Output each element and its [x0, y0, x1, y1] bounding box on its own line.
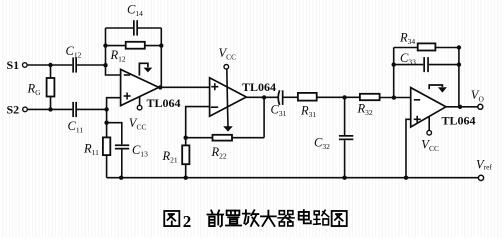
- wire C12 to node A: [77, 64, 106, 66]
- resistor R12: [106, 42, 162, 49]
- wire R32 to U3 inverting input: [380, 97, 411, 99]
- svg-text:RG: RG: [27, 82, 42, 98]
- wire C11 to node B: [77, 108, 107, 110]
- resistor R34: [394, 43, 459, 50]
- op-amp U3 Vcc pin: [427, 116, 432, 135]
- svg-text:S1: S1: [7, 58, 20, 72]
- wire feedback loop left vertical: [105, 28, 107, 65]
- capacitor C14: [106, 20, 162, 35]
- wire R22 left: [186, 137, 213, 139]
- wire U2 output: [246, 96, 278, 98]
- node S1 terminal: [23, 63, 28, 68]
- capacitor C11: [72, 102, 77, 117]
- resistor RG: [47, 65, 55, 109]
- node S2 terminal: [23, 107, 28, 112]
- wire U2 feedback vertical: [263, 97, 265, 137]
- svg-text:TL064: TL064: [242, 80, 276, 94]
- node C33 left junction: [392, 62, 396, 66]
- capacitor C33: [394, 57, 459, 72]
- node junction S1/RG: [48, 63, 52, 67]
- wire U3 output: [446, 106, 478, 108]
- wire loop3 left vertical: [393, 48, 395, 98]
- svg-text:C31: C31: [271, 103, 287, 119]
- svg-text:R34: R34: [399, 31, 415, 47]
- node C33 right junction: [457, 62, 461, 66]
- wire loop3 right vertical: [458, 48, 460, 107]
- wire C31 to R31: [284, 96, 298, 98]
- resistor R22: [213, 135, 233, 141]
- wire R31 to R32: [317, 96, 360, 98]
- op-amp U1: [121, 69, 159, 105]
- node B: [104, 107, 108, 111]
- node R11/C13 split: [104, 121, 108, 125]
- svg-text:2: 2: [183, 212, 192, 231]
- capacitor C31: [278, 90, 283, 105]
- node Vo terminal: [478, 104, 483, 109]
- wire U1 output to U2: [159, 86, 210, 88]
- svg-text:C33: C33: [400, 51, 416, 67]
- wire node B to non-inverting input U1: [107, 98, 121, 110]
- node R21 rail junction: [184, 176, 188, 180]
- capacitor C13: [107, 123, 130, 178]
- resistor R31: [298, 93, 317, 101]
- node C32 junction: [342, 95, 346, 99]
- wire U3 non-inverting input to rail: [406, 119, 411, 177]
- capacitor C12: [72, 57, 77, 72]
- node U3 output junction: [458, 105, 462, 109]
- svg-text:R22: R22: [211, 145, 227, 161]
- svg-text:S2: S2: [7, 103, 20, 117]
- node U2 output junction: [262, 95, 266, 99]
- wire S1 to C12: [27, 64, 72, 66]
- svg-text:C13: C13: [132, 143, 148, 159]
- svg-text:VCC: VCC: [219, 46, 237, 62]
- svg-text:R31: R31: [300, 104, 316, 120]
- node junction S2/RG: [48, 107, 52, 111]
- svg-text:TL064: TL064: [147, 96, 181, 110]
- op-amp U2 Vcc pin: [224, 65, 229, 111]
- node feedback/R21 junction: [184, 136, 188, 140]
- resistor R21: [182, 138, 189, 178]
- wire S2 to C11: [27, 108, 72, 110]
- op-amp U1 trim arrow: [139, 63, 152, 75]
- wire feedback to U2 inverting input: [186, 107, 210, 138]
- op-amp U3: [411, 88, 446, 127]
- svg-text:R21: R21: [162, 149, 178, 165]
- svg-text:TL064: TL064: [442, 114, 476, 128]
- node R12 right junction: [159, 43, 163, 47]
- node U1 output: [158, 85, 162, 89]
- wire node A to inverting input U1: [106, 65, 121, 75]
- wire R22 right: [232, 137, 264, 139]
- svg-text:R12: R12: [110, 48, 126, 64]
- svg-text:C11: C11: [68, 119, 84, 135]
- op-amp U3 trim arrow: [429, 85, 447, 93]
- capacitor C32: [339, 97, 353, 177]
- node loop3 top right: [457, 45, 461, 49]
- svg-text:C32: C32: [314, 136, 330, 152]
- op-amp U2: [210, 78, 247, 116]
- svg-text:VO: VO: [471, 88, 485, 104]
- svg-text:VCC: VCC: [421, 138, 439, 154]
- svg-text:R11: R11: [83, 142, 99, 158]
- svg-text:C14: C14: [127, 3, 143, 19]
- op-amp U2 down arrow: [223, 110, 233, 132]
- svg-text:Vref: Vref: [476, 157, 492, 171]
- node A: [103, 63, 107, 67]
- node loop3 left bottom junction: [392, 95, 396, 99]
- resistor R32: [360, 94, 380, 100]
- node C32 rail junction: [342, 176, 346, 180]
- wire feedback loop right vertical: [160, 28, 162, 87]
- svg-text:VCC: VCC: [129, 116, 147, 132]
- caption 图2 前置放大器电路图: [164, 210, 346, 231]
- op-amp U1 Vcc pin: [137, 97, 142, 110]
- node U3 plus rail junction: [404, 176, 408, 180]
- wire ground rail Vref: [107, 177, 479, 179]
- node C13 rail junction: [119, 176, 123, 180]
- svg-text:C12: C12: [66, 44, 82, 60]
- node R12 left junction: [103, 43, 107, 47]
- resistor R11: [103, 109, 110, 177]
- svg-text:R32: R32: [357, 102, 373, 118]
- node Vref terminal: [478, 175, 483, 180]
